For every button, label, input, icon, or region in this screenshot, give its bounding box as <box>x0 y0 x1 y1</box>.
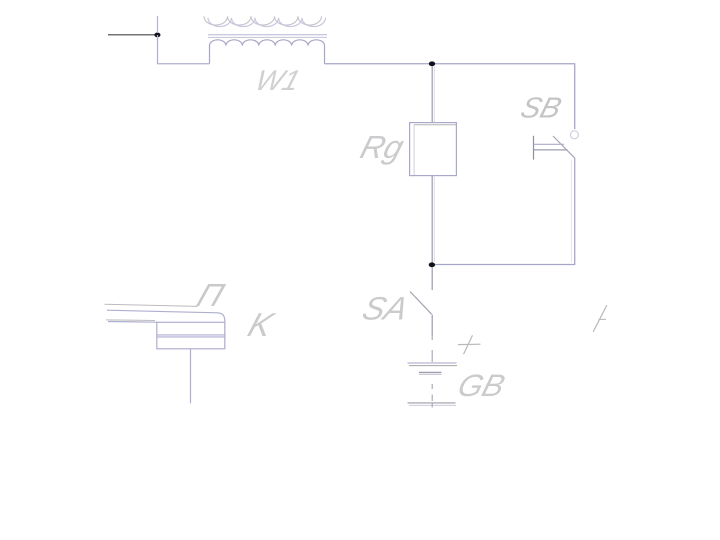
battery GB short plate 1 <box>419 371 442 373</box>
wire: dashed lead into GB <box>431 336 433 340</box>
wire: input lead (black, left) <box>108 34 156 36</box>
relay K coil box <box>157 322 225 349</box>
relay K armature lower line <box>108 321 157 324</box>
label SB <box>517 92 565 124</box>
wire: stub below junction C to SA <box>431 267 433 290</box>
label GB <box>454 368 509 403</box>
wire: stub below GB <box>431 403 433 408</box>
transformer W1 primary winding (bottom coil) <box>210 40 325 64</box>
push-button SB movable contact lever <box>553 136 575 159</box>
relay K coil box inner double line <box>157 334 225 336</box>
battery GB long plate 2 <box>408 402 456 404</box>
wire: dashed between GB cells <box>431 384 433 389</box>
wire: right vertical lower (SB to bottom corner) <box>432 159 575 265</box>
label Rg <box>357 128 408 164</box>
switch SA blade (open, diagonal) <box>410 292 432 315</box>
wire: right vertical upper (to SB contact) <box>574 64 576 129</box>
relay K armature top bar <box>107 310 225 348</box>
wire: resistor Rg down to bottom junction <box>431 176 433 265</box>
relay K plunger stem <box>190 349 192 403</box>
wire: SA to battery GB <box>431 315 433 337</box>
transformer W1 core lines <box>208 34 327 36</box>
label P (Cyrillic Pe) <box>192 278 228 314</box>
label W1 <box>251 66 303 97</box>
node C junction dot (bottom) <box>429 262 435 267</box>
relay K armature lower line (gray shadow) <box>106 319 155 322</box>
wire: left junction down then right to W1 primary <box>158 35 210 64</box>
transformer W1 secondary winding (top coil, gray shadow copy) <box>204 16 322 25</box>
battery GB long plate 1 <box>408 362 457 364</box>
push-button SB plunger bar <box>533 136 535 160</box>
wire: junction B down to resistor Rg <box>431 66 433 123</box>
label K <box>243 307 278 344</box>
wire: W1 to right corner (top horizontal) <box>325 63 576 65</box>
label SA <box>358 291 412 327</box>
partial label H (right edge) <box>593 305 607 332</box>
node B junction dot (top, at Rg feed) <box>429 61 435 66</box>
transformer W1 secondary winding (top coil) <box>208 18 326 27</box>
push-button SB actuator rod (two lines) <box>534 143 565 145</box>
relay K armature top bar (gray shadow) <box>105 304 198 306</box>
resistor Rg body <box>410 123 457 176</box>
label + (battery polarity) <box>458 343 481 345</box>
node A junction dot (left) <box>154 33 160 38</box>
wire: stub above left junction <box>157 16 159 33</box>
push-button SB fixed contact circle <box>570 131 578 139</box>
